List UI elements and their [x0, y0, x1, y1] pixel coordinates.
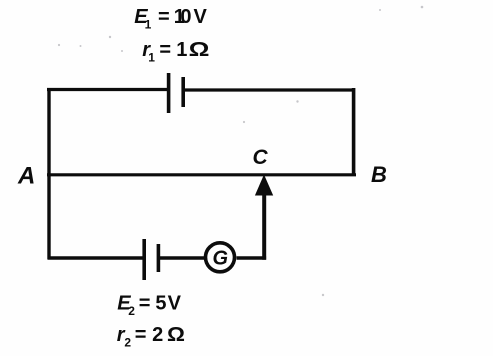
svg-text:r1=1: r1=1: [142, 39, 187, 65]
wire arrow vertical (slider to node C): [262, 192, 266, 260]
wire middle horizontal A to B: [47, 173, 356, 176]
svg-text:C: C: [253, 146, 269, 169]
wire right vertical (B side): [352, 88, 356, 176]
svg-text:Ω: Ω: [167, 324, 185, 346]
svg-text:Ω: Ω: [189, 38, 210, 60]
svg-text:A: A: [17, 163, 35, 190]
wire galvanometer to arrow corner: [237, 256, 267, 259]
wire top-right horizontal (E1 cell to right corner): [185, 88, 356, 91]
galvanometer G circle: [206, 243, 235, 272]
battery E1 long plate: [167, 73, 171, 113]
battery E2 short plate: [157, 244, 161, 272]
battery E1 short plate: [181, 77, 185, 107]
svg-text:E1=10V: E1=10V: [134, 6, 207, 32]
wire bottom-left horizontal (A to E2 cell): [48, 256, 143, 259]
wire top-left horizontal (A side to E1 cell): [47, 88, 167, 91]
svg-text:r2=2: r2=2: [117, 324, 163, 350]
wire E2 cell to galvanometer: [160, 256, 204, 259]
arrowhead at node C: [255, 175, 273, 196]
svg-text:E2=5V: E2=5V: [117, 293, 181, 319]
wire left vertical (A branch): [47, 88, 50, 260]
battery E2 long plate: [142, 239, 146, 280]
svg-text:B: B: [371, 162, 387, 187]
svg-text:G: G: [213, 248, 229, 270]
